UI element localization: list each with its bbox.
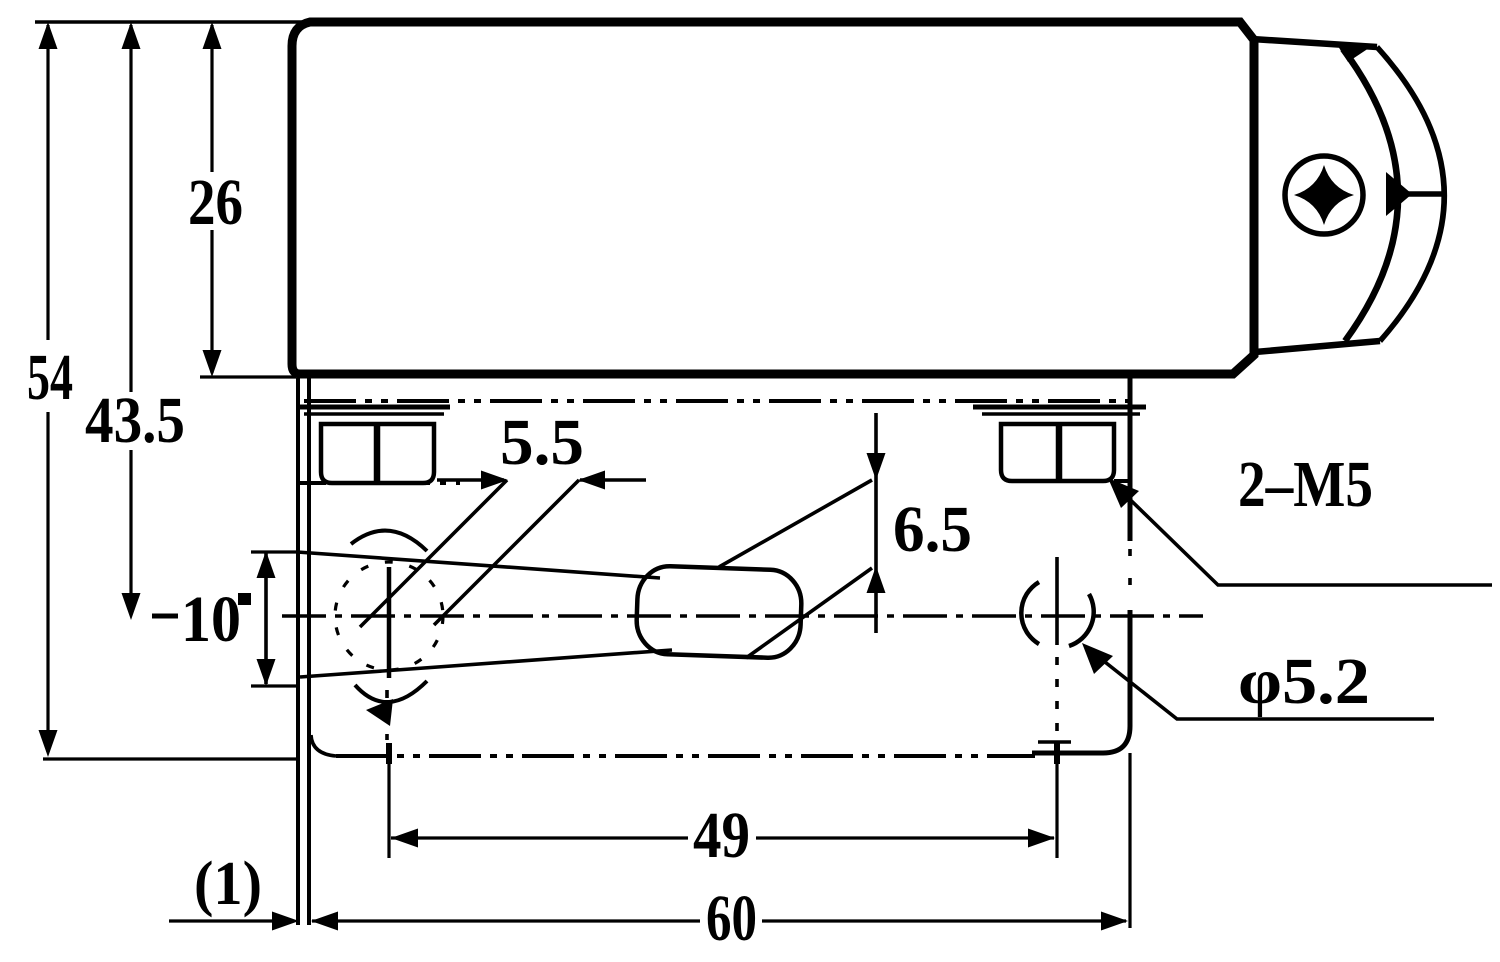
bracket right edge hidden dots — [1128, 549, 1132, 604]
screw head circle — [1285, 156, 1363, 234]
top extension line — [35, 20, 308, 24]
sweep arc top — [351, 531, 427, 551]
left hole dashed circle — [335, 562, 443, 670]
bracket right edge with rounded bottom corner — [1128, 378, 1133, 541]
slot obround — [636, 565, 803, 659]
svg-text:6.5: 6.5 — [893, 493, 972, 566]
cable gland top edge — [1252, 39, 1377, 47]
dim 5.5 extension diagonal 2 — [434, 480, 579, 625]
dim 49 line — [391, 836, 1054, 839]
dim 6.5 line — [874, 413, 878, 633]
leader phi5.2 arrowhead — [1082, 643, 1113, 674]
leader phi5.2 line — [1086, 647, 1434, 719]
dim 6.5 arrows — [867, 453, 886, 593]
left M5 screw head facet line — [374, 424, 381, 483]
cable gland inner arc top wedge — [1336, 43, 1372, 62]
bracket top phantom line — [304, 399, 1140, 403]
dim 26 line — [210, 25, 213, 373]
bracket bottom left corner — [311, 735, 336, 756]
svg-text:φ5.2: φ5.2 — [1238, 645, 1370, 718]
svg-text:(1): (1) — [194, 850, 262, 918]
degree mark — [238, 593, 251, 605]
dim (1) outside line — [169, 919, 280, 922]
right hole right arc — [1069, 594, 1094, 646]
dim 60 line — [312, 919, 1126, 922]
right M5 screw washer bottom — [982, 412, 1140, 416]
cable gland inner arc — [1343, 49, 1398, 341]
right M5 screw washer top — [973, 405, 1146, 410]
cable gland bottom edge — [1255, 341, 1380, 352]
dim 49 right extension — [1055, 745, 1058, 858]
bracket right edge extension line — [1128, 753, 1131, 928]
dim 49 arrows — [391, 829, 1055, 848]
bracket bottom phantom line — [336, 754, 1035, 758]
cable gland outer arc — [1377, 47, 1444, 341]
slot sweep lower line — [300, 650, 672, 677]
slot sweep upper line — [297, 552, 660, 578]
dim 26 bottom extension — [200, 375, 296, 378]
left M5 screw washer top — [298, 405, 450, 410]
dim 60 arrows — [311, 912, 1128, 931]
bracket left outer edge — [296, 378, 300, 925]
dim 10 extension lines — [251, 552, 298, 686]
right M5 screw head facet line — [1056, 424, 1063, 481]
left M5 screw head body — [321, 424, 434, 483]
right hole left arc — [1021, 582, 1039, 644]
bracket left inner edge — [307, 378, 311, 925]
svg-text:43.5: 43.5 — [85, 384, 185, 457]
dim 26 arrows — [203, 22, 222, 377]
bracket right edge lower part — [1032, 610, 1130, 753]
dim 49 left extension tick — [386, 743, 392, 764]
cable gland wedge shadow — [1386, 172, 1412, 216]
sweep arc bottom — [355, 681, 427, 702]
left M5 screw bottom chain line — [300, 481, 460, 485]
horizontal centerline — [282, 614, 1203, 618]
dim (1) outside arrow — [272, 912, 299, 931]
phillips cross recess — [1294, 165, 1354, 225]
dim 6.5 extension diagonal lower — [746, 568, 872, 658]
dim 10 line — [264, 552, 268, 684]
svg-text:49: 49 — [693, 799, 750, 872]
dim 54 bottom extension — [43, 757, 298, 760]
left hole vertical centerline — [387, 567, 392, 678]
right hole centerline dots — [1055, 657, 1059, 742]
left M5 screw washer bottom — [304, 412, 444, 416]
dim 54 arrows — [39, 22, 58, 757]
dim 10 arrows — [257, 551, 276, 686]
dim 49 right extension tick — [1054, 743, 1060, 764]
svg-text:10: 10 — [181, 583, 241, 656]
sweep arc arrowhead — [366, 699, 393, 726]
leader 2-M5 arrowhead — [1108, 478, 1139, 508]
right M5 screw head body — [1001, 424, 1114, 481]
leader 2-M5 line — [1112, 482, 1492, 585]
svg-text:2–M5: 2–M5 — [1238, 448, 1373, 521]
svg-text:54: 54 — [27, 341, 73, 414]
dim 5.5 arrows — [481, 471, 605, 490]
dim 43.5 arrows — [122, 22, 141, 620]
dim 43.5 line — [129, 25, 132, 612]
right M5 screw bottom chain line — [1010, 479, 1128, 483]
cable gland mid parting line — [1396, 191, 1446, 197]
dim 5.5 line — [437, 478, 646, 482]
right hole vertical centerline — [1055, 557, 1059, 645]
svg-text:26: 26 — [188, 166, 243, 239]
dim 54 line — [46, 25, 49, 752]
dim 10 tick — [152, 614, 178, 619]
dim 49 left extension — [387, 745, 390, 858]
svg-text:5.5: 5.5 — [500, 406, 584, 479]
svg-text:60: 60 — [706, 882, 757, 955]
left hole centerline dots — [385, 690, 389, 740]
dim 5.5 extension diagonal 1 — [360, 480, 507, 627]
dim 6.5 extension diagonal upper — [719, 480, 872, 567]
sensor body outline — [292, 22, 1254, 374]
